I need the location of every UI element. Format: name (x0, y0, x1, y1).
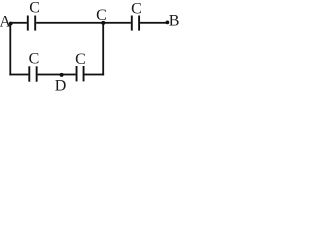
wire C1 to junction C to C2 (top middle horizontal) (36, 22, 131, 24)
capacitor C4 (bottom right) right plate (83, 66, 85, 81)
node C junction dot (101, 21, 105, 25)
wire C2 to B (top right horizontal) (140, 22, 168, 24)
capacitor C3 (bottom left) right plate (36, 66, 38, 81)
svg-text:C: C (29, 0, 40, 17)
wire A to C1 (top left horizontal) (10, 22, 27, 24)
node D junction dot (60, 73, 64, 77)
capacitor C2 (top right) right plate (138, 16, 140, 31)
wire C4 to right corner (bottom right horizontal) (85, 74, 105, 76)
capacitor C3 (bottom left) left plate (28, 66, 30, 81)
svg-text:C: C (75, 51, 86, 68)
svg-text:B: B (169, 13, 180, 30)
svg-text:C: C (131, 0, 142, 17)
svg-text:C: C (96, 7, 107, 24)
capacitor C2 (top right) left plate (131, 16, 133, 31)
capacitor C4 (bottom right) left plate (76, 66, 78, 81)
wire left vertical (A down to bottom branch) (9, 23, 11, 76)
wire C3 to C4 (bottom middle horizontal) (38, 74, 76, 76)
capacitor C1 (top left) left plate (27, 16, 29, 31)
background (0, 0, 184, 93)
capacitor C1 (top left) right plate (34, 16, 36, 31)
node B terminal dot (166, 21, 170, 25)
node A junction dot (9, 22, 13, 26)
svg-text:C: C (29, 51, 40, 68)
svg-text:D: D (55, 78, 67, 94)
wire bottom left horizontal (corner to C3) (9, 74, 28, 76)
wire right vertical (junction C down to bottom branch) (102, 23, 104, 76)
